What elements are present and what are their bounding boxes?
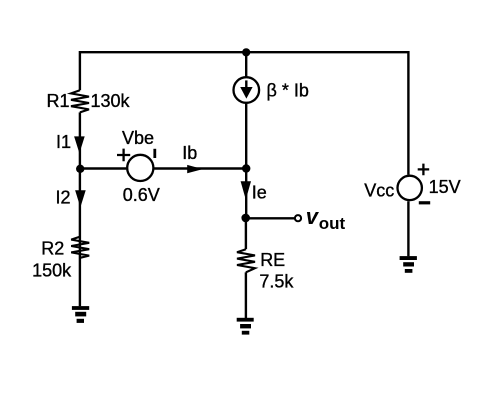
svg-text:Ie: Ie bbox=[252, 183, 267, 203]
svg-text:Ib: Ib bbox=[182, 143, 197, 163]
svg-text:R1: R1 bbox=[47, 91, 70, 111]
svg-text:Vcc: Vcc bbox=[364, 180, 394, 200]
svg-text:7.5k: 7.5k bbox=[259, 271, 294, 291]
svg-text:I1: I1 bbox=[56, 132, 71, 152]
svg-text:I2: I2 bbox=[56, 187, 71, 207]
svg-text:150k: 150k bbox=[32, 261, 72, 281]
svg-text:Vbe: Vbe bbox=[122, 128, 154, 148]
svg-text:15V: 15V bbox=[429, 177, 461, 197]
svg-text:β * Ib: β * Ib bbox=[267, 81, 309, 101]
svg-text:0.6V: 0.6V bbox=[123, 185, 160, 205]
svg-text:R2: R2 bbox=[41, 238, 64, 258]
svg-text:130k: 130k bbox=[91, 91, 131, 111]
svg-text:out: out bbox=[319, 214, 346, 233]
svg-text:v: v bbox=[306, 204, 320, 229]
svg-text:RE: RE bbox=[260, 250, 285, 270]
